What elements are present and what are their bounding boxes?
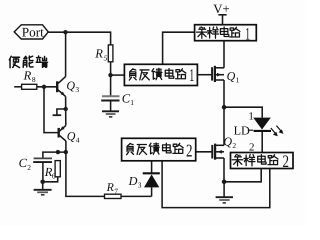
resistor R8 [22, 68, 37, 89]
svg-text:5: 5 [104, 54, 108, 63]
wire Q3 emitter to Q4 [65, 96, 67, 125]
wire C1 to ground [110, 101, 112, 112]
ground under Q2 [216, 182, 233, 203]
block 负反馈电路2 [122, 138, 196, 161]
svg-text:Q: Q [227, 69, 236, 83]
wire collector Q3 [65, 32, 67, 76]
svg-text:LD: LD [234, 123, 250, 137]
capacitor C1 [101, 91, 134, 107]
svg-text:R: R [94, 47, 103, 61]
wire enable input [14, 86, 21, 88]
node R6 top row [56, 150, 60, 154]
resistor R6 [44, 161, 61, 181]
block 采样电路1 [195, 25, 257, 41]
svg-text:1: 1 [189, 65, 194, 85]
node main line row [64, 150, 68, 154]
light ray arrows [271, 126, 284, 137]
svg-text:Q: Q [67, 129, 76, 143]
svg-text:R: R [106, 180, 115, 194]
wire LD to sample2 [261, 131, 263, 153]
wire sample1 to Q1 drain [223, 41, 225, 68]
svg-text:1: 1 [130, 98, 134, 107]
svg-text:Q: Q [66, 78, 75, 92]
laser diode LD [234, 118, 271, 138]
wire Q1 source to node [223, 80, 225, 107]
wire row to C2 [43, 152, 66, 158]
node top junction [63, 30, 67, 34]
svg-text:7: 7 [114, 188, 118, 196]
diode D3 [128, 161, 160, 197]
svg-text:2: 2 [232, 141, 236, 150]
ground under C2 R6 [34, 182, 52, 195]
tap symbol mid node [53, 107, 68, 115]
svg-text:V+: V+ [213, 2, 229, 16]
transistor Q4 [59, 125, 80, 144]
node ground left [40, 180, 45, 185]
wire Q2 source down [223, 158, 225, 182]
resistor R7 [105, 180, 122, 199]
V+ terminal [213, 2, 229, 25]
text 采样电路1 in box3 [197, 23, 250, 43]
block 负反馈电路1 [124, 64, 197, 85]
port symbol Port [14, 25, 48, 40]
wire Q4 collector down to bottom [66, 141, 105, 196]
wire sample2 branch B to rail [162, 161, 270, 208]
wire node to LD branch [224, 107, 262, 117]
node Q2 source [222, 180, 227, 185]
svg-text:3: 3 [138, 180, 142, 189]
node Q1/Q2/LD [222, 105, 227, 110]
svg-text:6: 6 [52, 171, 56, 180]
text 负反馈电路1 in box1 [129, 65, 194, 85]
svg-text:4: 4 [76, 135, 80, 144]
svg-text:D: D [128, 174, 138, 188]
svg-text:1: 1 [248, 110, 254, 122]
wire box1 top to sample1 [163, 32, 195, 64]
transistor Q3 [57, 77, 79, 97]
svg-text:R: R [23, 68, 32, 82]
wire node to sample2 bottom branch A [224, 169, 261, 182]
wire R7 to diode D3 [121, 195, 152, 197]
wire node down to Q4 base [44, 87, 58, 133]
ground under C1 [102, 111, 119, 117]
svg-text:8: 8 [32, 75, 36, 84]
text 负反馈电路2 in box2 [127, 141, 193, 161]
wire node to C1 [110, 75, 112, 96]
block 采样电路2 [231, 153, 294, 169]
capacitor C2 [19, 156, 52, 172]
wire R6 bottom to ground node [43, 177, 58, 182]
svg-text:1: 1 [245, 23, 250, 43]
svg-text:2: 2 [27, 163, 31, 172]
wire Q2 drain to node [223, 107, 225, 145]
mosfet Q2 [196, 135, 237, 160]
wire node to box1 [111, 74, 125, 76]
label 使能端 [9, 56, 47, 68]
svg-text:2: 2 [283, 151, 290, 171]
wire R5 to node [110, 62, 112, 75]
svg-text:1: 1 [236, 76, 240, 85]
node R5/C1/box1 [108, 73, 112, 77]
wire Port to R5 corner [48, 32, 110, 45]
text 采样电路2 in box4 [232, 151, 289, 171]
wire C2 bottom to ground node [42, 162, 44, 182]
wire R8 to Q3 base [37, 86, 57, 88]
node base drive [42, 85, 46, 89]
svg-text:Port: Port [22, 25, 44, 40]
resistor R5 [94, 45, 113, 63]
mosfet Q1 [197, 66, 239, 85]
svg-text:2: 2 [186, 141, 193, 161]
svg-text:3: 3 [75, 85, 79, 94]
